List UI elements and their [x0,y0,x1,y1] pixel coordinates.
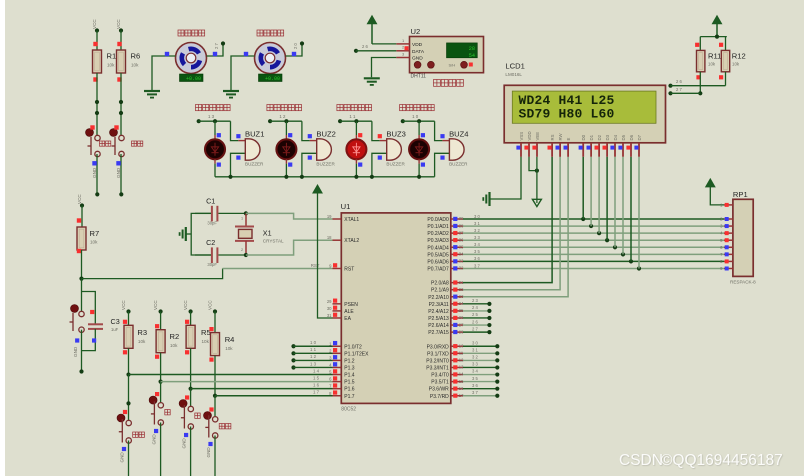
buzzer BUZ3 [386,129,405,166]
wire P2.3 net [463,298,492,306]
wire LCD VDD [529,157,539,173]
RP1 pins [720,203,733,272]
svg-text:10k: 10k [225,346,233,351]
power VCC terminal for R1 [92,19,99,33]
watermark [619,452,783,469]
svg-text:R4: R4 [225,335,235,344]
wire buzzer BUZ1 pin2 [231,153,246,177]
svg-text:P0.7/AD7: P0.7/AD7 [427,266,449,272]
svg-text:19: 19 [327,214,332,219]
wire VCC to R6 [120,31,122,51]
LED D1 [205,139,225,159]
svg-text:VDD: VDD [527,131,532,140]
buzzer BUZ1 [245,129,264,166]
svg-text:1 4: 1 4 [313,368,320,373]
svg-text:VEE: VEE [535,132,540,141]
svg-text:D7: D7 [637,134,642,140]
wire P2.4 net [463,305,492,313]
svg-text:BUZZER: BUZZER [316,161,335,166]
svg-text:U2: U2 [411,27,421,36]
svg-text:P0.0/AD0: P0.0/AD0 [427,217,449,223]
label alarm BUZ4 (Chinese) [400,105,435,111]
junction P0.1/LCD D1 [589,224,593,228]
svg-text:P2.5/A13: P2.5/A13 [428,316,449,322]
svg-text:GND: GND [206,447,211,458]
power VCC arrow for RP1 [706,179,724,205]
svg-text:10k: 10k [90,240,98,245]
wire LCD VSS to ground [490,157,522,199]
label alarm BUZ3 (Chinese) [337,105,372,111]
svg-text:D0: D0 [581,134,586,140]
wire P2.1 to LCD [463,157,560,290]
label motor M1 [178,30,205,36]
svg-text:R6: R6 [131,52,141,61]
svg-text:1 1: 1 1 [310,347,317,352]
wire LCD D7 drop [638,157,640,269]
power VCC terminal for R3 [121,300,131,326]
wire R12 down [725,72,727,86]
U2 knobs [414,61,473,68]
wire LCD D6 drop [630,157,632,262]
label alarm BUZ1 (Chinese) [196,105,231,111]
svg-text:BUZ1: BUZ1 [245,129,264,138]
svg-text:18: 18 [327,235,332,240]
wire R3 net to button [128,375,130,423]
junction P0.6/LCD D6 [629,259,633,263]
svg-text:P2.7/A15: P2.7/A15 [428,330,449,336]
wire LED BUZ4 top [419,121,425,139]
node top wire BUZ1 [197,119,231,123]
svg-text:1 3: 1 3 [310,361,317,366]
svg-text:GND: GND [116,167,121,178]
wire buzzer BUZ4 pin2 [435,153,450,177]
svg-text:P1.2: P1.2 [344,358,355,364]
wire P2.6 net [463,319,492,327]
capacitor C1 [195,196,246,225]
svg-text:P2.0/A8: P2.0/A8 [431,281,449,287]
resistor R4 [209,327,234,362]
U1 right pins [426,216,464,400]
wire LCD VEE to ground arrow [536,157,538,200]
svg-text:D2: D2 [597,134,602,140]
wire button R4 to bottom GND [206,436,215,476]
svg-text:P0.1/AD1: P0.1/AD1 [427,224,449,230]
svg-text:1uF: 1uF [111,327,119,332]
resistor R2 [155,324,179,359]
svg-text:D3: D3 [605,134,610,140]
lcd LCD1 body [504,85,665,143]
power VCC terminal for R7 [77,194,84,208]
svg-text:3 2: 3 2 [472,355,478,360]
svg-text:10k: 10k [170,343,178,348]
svg-text:LM016L: LM016L [505,72,522,77]
power VCC terminal for R5 [183,300,193,326]
svg-text:P1.4: P1.4 [344,373,355,379]
wire P1.1 net [291,347,332,355]
wire P0.7 to RP1 [463,263,724,268]
wire LCD D4 drop [614,157,616,247]
svg-text:10k: 10k [107,63,115,68]
svg-text:BUZ3: BUZ3 [386,129,405,138]
svg-text:P2.3/A11: P2.3/A11 [429,302,449,308]
wire button R6 to GND label [116,154,123,196]
wire buzzer common bus [215,175,435,179]
svg-text:1 2: 1 2 [279,114,286,119]
junction P0.0/LCD D0 [581,217,585,221]
wire button R5 to bottom GND [182,427,191,476]
ground for U2 [364,78,380,85]
wire P2.2 to LCD [463,157,568,297]
ground arrow below LCD [532,199,541,206]
wire P0.2 to RP1 [463,228,724,233]
svg-text:2 7: 2 7 [214,43,219,49]
svg-text:1 1: 1 1 [349,114,356,119]
lcd pin stubs and labels [516,131,641,156]
wire VCC to R1 [96,31,98,51]
svg-text:X1: X1 [263,228,272,237]
svg-text:C1: C1 [206,196,215,205]
wire button R1 to GND label [92,154,99,196]
node top wire BUZ2 [268,119,302,123]
svg-text:RW: RW [558,132,563,140]
svg-text:RS: RS [550,134,555,140]
wire P1.3 net [291,361,332,369]
svg-text:30pF: 30pF [207,262,217,267]
lcd text row2 [519,107,615,122]
wire XTAL1 [246,213,333,219]
wire LCD D2 drop [598,157,600,233]
wire P0.3 to RP1 [463,235,724,240]
wire reset button to GND [73,330,84,374]
svg-text:GND: GND [92,167,97,178]
svg-text:C3: C3 [111,317,120,326]
svg-text:BUZZER: BUZZER [245,161,264,166]
wire P2.0 to LCD [463,157,552,283]
capacitor C3 [82,317,120,351]
resistor R12 [719,43,746,80]
label for U2 (Chinese) [434,80,464,87]
svg-text:1: 1 [241,217,243,221]
wire P3.4 net [463,369,499,377]
svg-text:WD24 H41 L25: WD24 H41 L25 [519,93,615,108]
wire U2 GND [372,58,397,78]
svg-text:GND: GND [73,346,78,357]
svg-text:P2.6/A14: P2.6/A14 [428,323,449,329]
svg-text:2 4: 2 4 [472,305,478,310]
svg-text:LCD1: LCD1 [505,61,524,70]
wire VCC split R11 R12 [700,35,727,51]
resistor R11 [695,43,721,80]
svg-text:3 0: 3 0 [474,214,480,219]
svg-text:31: 31 [327,313,332,318]
motor M2 [255,43,286,83]
svg-text:©QQ1694456187: ©QQ1694456187 [661,452,783,469]
junction P0.7/LCD D7 [637,266,641,270]
LED D3 [346,139,366,159]
svg-text:P2.2/A10: P2.2/A10 [428,295,449,301]
wire buzzer BUZ3 pin2 [372,153,387,177]
svg-text:P3.0/RXD: P3.0/RXD [427,344,450,350]
node top wire BUZ3 [338,119,372,123]
svg-text:R1: R1 [107,52,117,61]
svg-text:P1.5: P1.5 [344,380,355,386]
wire P1.5 net [161,375,333,381]
lcd text row1 [519,93,615,108]
svg-text:C2: C2 [206,238,215,247]
junction P0.2/LCD D2 [597,231,601,235]
wire LED BUZ3 top [356,121,362,139]
push button under R3 [117,410,144,443]
svg-text:RST: RST [311,263,320,268]
svg-text:1 5: 1 5 [313,375,320,380]
wire P3.1 net [463,348,499,356]
wire R3 to P1 net [126,348,130,376]
wire R2 to P1 net [159,353,163,384]
svg-text:RST: RST [344,266,354,272]
junction P0.3/LCD D3 [605,238,609,242]
wire R6 to button [119,73,123,138]
wire R11 down [698,72,702,96]
LED D2 [276,139,296,159]
svg-text:10k: 10k [138,339,146,344]
svg-text:2 7: 2 7 [472,326,478,331]
svg-text:30pF: 30pF [207,221,217,226]
svg-text:P3.4/T0: P3.4/T0 [431,373,449,379]
resistor R7 [77,206,99,254]
wire LED BUZ2 bottom [286,159,292,177]
svg-text:R7: R7 [90,229,100,238]
svg-text:GND: GND [120,452,125,463]
svg-text:P3.3/INT1: P3.3/INT1 [426,365,449,371]
wire LCD D1 drop [590,157,592,226]
svg-text:VCC: VCC [116,19,121,29]
U2 pin labels [412,42,425,62]
wire P1.2 net [291,354,332,362]
wire P2.5 net [463,312,492,320]
wire motor M1 right pin [207,41,226,56]
svg-text:S/H: S/H [449,63,456,68]
wire net SDA [668,79,725,88]
svg-text:3 1: 3 1 [474,221,480,226]
svg-text:P1.1/T2EX: P1.1/T2EX [344,351,369,357]
sensor U2 DHT11 body [410,27,484,80]
U1 left pins [327,214,369,400]
wire P1.0 net [291,340,332,348]
wire motor M1 left pin to ground [152,52,176,91]
svg-text:P1.0/T2: P1.0/T2 [344,344,362,350]
push button under R2 [149,392,170,425]
svg-text:P0.5/AD5: P0.5/AD5 [427,252,449,258]
svg-text:CRYSTAL: CRYSTAL [263,238,284,243]
power VCC arrow for R11 R12 [712,16,721,37]
svg-text:1 6: 1 6 [313,382,320,387]
resistor R5 [185,320,211,355]
svg-text:P2.1/A9: P2.1/A9 [431,288,449,294]
wire P0.1 to RP1 [463,221,724,226]
svg-text:P3.7/RD: P3.7/RD [430,394,449,400]
svg-text:R5: R5 [201,328,211,337]
svg-text:EA: EA [344,316,351,322]
label motor M2 [257,30,284,36]
svg-text:VCC: VCC [208,300,213,310]
svg-text:1 0: 1 0 [310,340,317,345]
wire net SCL [668,87,700,95]
svg-text:3 5: 3 5 [472,376,478,381]
svg-text:PSEN: PSEN [344,302,358,308]
resistor R6 [117,50,141,73]
wire LED BUZ4 bottom [419,159,425,177]
svg-text:3 6: 3 6 [472,383,478,388]
svg-text:VCC: VCC [153,300,158,310]
wire R5 to P1 net [189,348,193,390]
wire motor M2 right pin [286,41,305,56]
wire LED BUZ3 bottom [356,159,362,177]
wire LED BUZ1 bottom [215,159,221,177]
wire P0.0 to RP1 [463,214,724,219]
svg-text:2 5: 2 5 [472,312,478,317]
wire motor M2 left pin to ground [231,52,255,91]
wire buzzer BUZ4 pin1 [435,121,450,140]
svg-text:BUZZER: BUZZER [449,161,468,166]
pin state squares R1 [93,42,97,82]
svg-text:RP1: RP1 [733,190,748,199]
power VCC terminal for R4 [208,300,218,333]
wire LED BUZ1 top [215,121,221,139]
svg-text:D6: D6 [629,134,634,140]
buzzer BUZ2 [316,129,335,166]
node top wire BUZ4 [401,119,435,123]
wire P0.5 to RP1 [463,249,724,254]
resistor R3 [123,320,147,355]
svg-text:DATA: DATA [412,49,425,55]
svg-text:P0.2/AD2: P0.2/AD2 [427,231,449,237]
net label BUZ1 [208,114,215,119]
wire U2 DATA [354,44,396,53]
svg-text:D1: D1 [589,134,594,140]
svg-text:VSS: VSS [519,132,524,141]
svg-text:29: 29 [327,299,332,304]
node on R3 button wire [126,401,130,405]
wire P3.3 net [463,362,499,370]
svg-text:DHT11: DHT11 [411,74,427,80]
LED D4 [409,139,429,159]
net label BUZ2 [279,114,286,119]
ground left of crystal [180,227,192,241]
svg-text:P0.6/AD6: P0.6/AD6 [427,259,449,265]
power VCC terminal for R6 [116,19,123,33]
svg-text:54: 54 [469,53,475,59]
motor M1 [176,43,207,83]
ground for motor M1 [144,91,160,98]
wire R4 net to button [214,396,216,420]
svg-text:GND: GND [152,434,157,445]
svg-text:XTAL1: XTAL1 [344,217,359,223]
svg-text:2 6: 2 6 [362,44,368,49]
wire P0.6 to RP1 [463,256,724,261]
svg-text:3 0: 3 0 [472,340,478,345]
svg-text:GND: GND [412,56,423,62]
wire reset branch [82,279,96,325]
U2 pin stubs [396,38,409,58]
svg-text:3 1: 3 1 [472,348,478,353]
svg-text:R11: R11 [708,52,721,61]
svg-text:80C52: 80C52 [341,407,356,413]
power VCC arrow for U2 [367,16,376,44]
respack RP1 body [730,190,756,285]
svg-text:3 7: 3 7 [474,263,480,268]
wire P3.5 net [463,376,499,384]
wire U2 VDD [372,43,396,45]
ground for motor M2 [223,91,239,98]
pin state squares R6 [117,42,121,82]
svg-text:BUZZER: BUZZER [386,161,405,166]
svg-text:VCC: VCC [121,300,126,310]
wire R7 to RST net [79,250,83,281]
svg-text:+0.00: +0.00 [265,76,280,82]
svg-text:P3.1/TXD: P3.1/TXD [427,351,449,357]
wire P0.4 to RP1 [463,242,724,247]
svg-text:10k: 10k [732,62,740,67]
wire P3.7 net [463,390,499,398]
svg-text:P2.4/A12: P2.4/A12 [428,309,449,315]
crystal X1 [235,211,284,257]
svg-text:10k: 10k [202,339,210,344]
wire button R3 to bottom GND [120,441,129,476]
svg-text:XTAL2: XTAL2 [344,238,359,244]
svg-text:P1.7: P1.7 [344,394,355,400]
svg-text:3 7: 3 7 [472,390,478,395]
svg-text:R12: R12 [732,52,746,61]
resistor R1 [93,50,117,73]
wire LED BUZ2 top [286,121,292,139]
svg-text:30: 30 [327,306,332,311]
reset button [70,305,95,333]
svg-text:2 7: 2 7 [676,87,682,92]
wire R4 to P1 net [213,356,217,398]
wire P2.7 net [463,326,492,334]
svg-text:1 3: 1 3 [208,114,215,119]
svg-text:2 6: 2 6 [472,319,478,324]
svg-text:SD79 H80 L60: SD79 H80 L60 [519,107,615,122]
svg-text:P0.3/AD3: P0.3/AD3 [427,238,449,244]
svg-text:3 4: 3 4 [472,369,478,374]
svg-text:3 6: 3 6 [474,256,480,261]
switch button under R1 [86,125,111,156]
wire P1.4 net [129,368,333,374]
wire RST to U1 [82,263,333,279]
svg-text:P1.6: P1.6 [344,387,355,393]
net label BUZ3 [349,114,356,119]
svg-text:VCC: VCC [77,194,82,204]
svg-text:D4: D4 [613,134,618,140]
svg-text:2 0: 2 0 [293,43,298,49]
svg-text:2: 2 [241,248,243,252]
wire P3.2 net [463,355,499,363]
power VCC arrow to EA [313,185,333,318]
svg-text:2 3: 2 3 [472,298,478,303]
wire R1 to button [95,73,99,138]
ground for LCD VSS [483,192,489,206]
svg-text:3 5: 3 5 [474,249,480,254]
power VCC terminal for R2 [153,300,163,330]
svg-text:P3.2/INT0: P3.2/INT0 [426,358,449,364]
svg-text:P3.6/WR: P3.6/WR [429,387,449,393]
svg-text:P1.3: P1.3 [344,365,355,371]
svg-text:VCC: VCC [183,300,188,310]
svg-text:P3.5/T1: P3.5/T1 [431,380,449,386]
svg-text:RESPACK-8: RESPACK-8 [730,280,756,285]
push button under R5 [179,395,200,429]
